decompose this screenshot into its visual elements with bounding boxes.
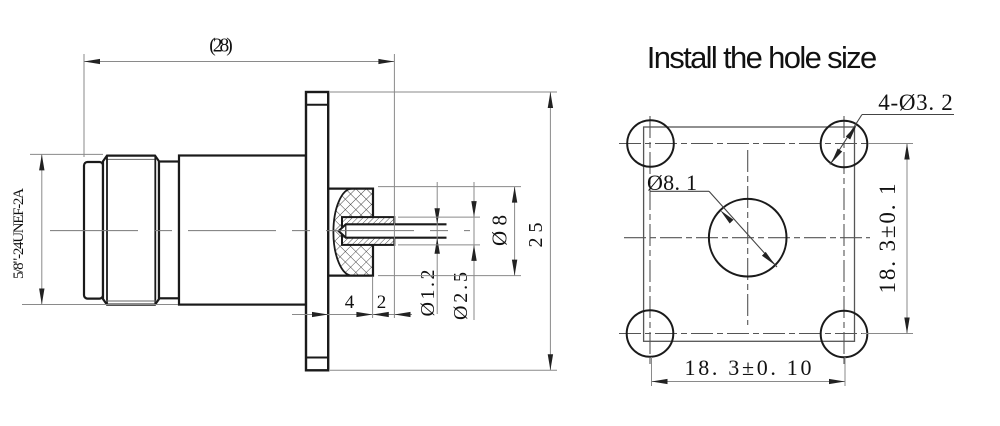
- dim O1.2 bottom arrow: [435, 238, 440, 254]
- leader O8.1 lower arrow: [762, 252, 775, 265]
- svg-text:4: 4: [345, 292, 355, 313]
- dim O1.2 top arrow: [435, 208, 440, 224]
- thread callout bottom arrow: [39, 289, 44, 305]
- dim 18.3+-0.10 right arrow: [829, 379, 845, 384]
- dim O8 bottom arrow: [512, 260, 517, 276]
- dim O2.5 extension bottom: [398, 244, 480, 246]
- leader 4-O3.2 diagonal: [830, 115, 862, 165]
- dimension (28) left arrow: [84, 59, 100, 64]
- dim 18.3+-0.1 bottom arrow: [904, 318, 909, 334]
- svg-text:(28): (28): [209, 36, 233, 57]
- leader 4-O3.2 upper arrow: [846, 125, 857, 140]
- flange top inner edge: [306, 104, 328, 106]
- dim 18.3+-0.1 line: [906, 144, 908, 334]
- centerline middle horizontal: [624, 237, 870, 239]
- pin cone base line: [345, 224, 347, 237]
- thread section 5/8-24UNEF: [103, 156, 159, 305]
- leader O8.1 underline: [650, 190, 709, 192]
- svg-text:2: 2: [377, 292, 387, 313]
- leader O8.1 diagonal: [709, 191, 777, 267]
- dim O2.5 bottom arrow: [471, 245, 476, 261]
- hole top-left: [627, 120, 674, 167]
- thread callout top arrow: [39, 154, 44, 170]
- dim 18.3+-0.1 top arrow: [904, 144, 909, 160]
- centerline top row: [619, 143, 868, 145]
- dimension (28) right arrow: [378, 59, 394, 64]
- dim 18.3+-0.10 line: [652, 381, 846, 383]
- thread root line top: [106, 158, 156, 160]
- dim 2 left arrow: [356, 312, 372, 317]
- leader 4-O3.2 lower arrow: [831, 149, 842, 164]
- centerline middle vertical: [747, 150, 749, 325]
- dim O1.2 line: [436, 182, 438, 314]
- dimension (28) line: [84, 61, 394, 63]
- hole bottom-right: [821, 311, 868, 358]
- dim 25 extension top: [330, 91, 557, 93]
- svg-text:5/8"-24UNEF-2A: 5/8"-24UNEF-2A: [11, 188, 27, 279]
- main body: [179, 156, 306, 305]
- centerline right column: [843, 116, 845, 364]
- thread chamfer base edge left: [106, 156, 108, 305]
- dim 25 line: [549, 92, 551, 370]
- dim 25 extension bottom: [330, 369, 557, 371]
- dim 18.3+-0.10 left arrow: [652, 379, 668, 384]
- flange: [306, 92, 328, 370]
- dim 4 right arrow: [373, 312, 389, 317]
- dim 4 left arrow: [312, 312, 328, 317]
- dim 18.3+-0.10 extension right: [844, 357, 846, 386]
- dim 25 bottom arrow: [548, 354, 553, 370]
- thread chamfer base edge right: [154, 156, 156, 305]
- dim 18.3+-0.10 extension left: [651, 357, 653, 386]
- dim 2 right arrow: [394, 312, 410, 317]
- dim 18.3+-0.1 extension top: [868, 143, 913, 145]
- coupling nut front cap: [84, 162, 103, 299]
- dimension (28) extension left: [83, 54, 85, 157]
- dim O8 line: [514, 187, 516, 276]
- svg-text:4-Ø3. 2: 4-Ø3. 2: [878, 90, 953, 115]
- groove section: [159, 162, 179, 299]
- thread callout extension top: [30, 153, 103, 155]
- svg-text:Install the hole size: Install the hole size: [647, 40, 878, 75]
- insulator dome cross-hatched: [333, 189, 373, 276]
- extension line insulator right: [372, 277, 374, 318]
- dimension (28) extension right: [393, 54, 395, 318]
- svg-text:18. 3±0. 10: 18. 3±0. 10: [685, 355, 812, 380]
- hole center O8.1: [709, 199, 787, 277]
- centerline bottom row: [619, 333, 868, 335]
- svg-text:18. 3±0. 1: 18. 3±0. 1: [875, 184, 900, 294]
- flange bottom inner edge: [306, 357, 328, 359]
- svg-text:Ø1.2: Ø1.2: [417, 270, 439, 317]
- centerline: [50, 230, 470, 232]
- centerline left column: [649, 116, 651, 364]
- leader 4-O3.2 underline: [862, 114, 954, 116]
- hole top-right: [821, 121, 868, 168]
- thread callout dimension line: [41, 154, 43, 304]
- insulator cavity outline: [328, 189, 373, 276]
- thread root line bottom: [106, 300, 156, 302]
- dim 4/2 line: [292, 314, 412, 316]
- hole bottom-left: [627, 310, 674, 357]
- insulator dome arc outline: [333, 189, 352, 276]
- center pin: [339, 224, 447, 237]
- thread callout extension bottom: [22, 304, 178, 306]
- dim O8 extension top: [378, 186, 521, 188]
- dim O2.5 top arrow: [471, 201, 476, 217]
- dim O8 top arrow: [512, 187, 517, 203]
- dim O8 extension bottom: [378, 275, 521, 277]
- dim O2.5 line: [473, 182, 475, 320]
- leader O8.1 upper arrow: [720, 210, 733, 223]
- dim 25 top arrow: [548, 92, 553, 108]
- plate square outline: [644, 127, 855, 341]
- svg-text:Ø2.5: Ø2.5: [450, 272, 472, 320]
- dim 18.3+-0.1 extension bottom: [862, 333, 913, 335]
- dim O2.5 extension top: [398, 216, 480, 218]
- pin support hatched: [342, 217, 394, 245]
